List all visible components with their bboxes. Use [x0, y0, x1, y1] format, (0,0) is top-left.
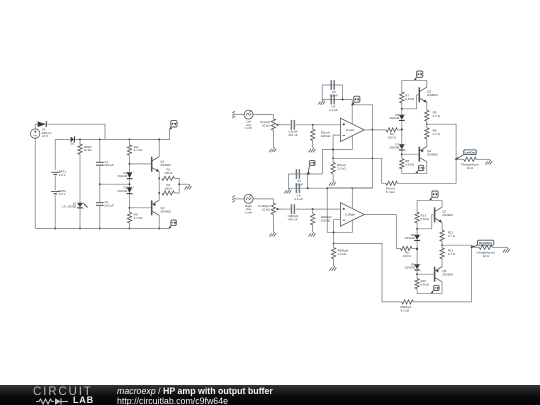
junction output node	[178, 183, 180, 185]
wire +v to V+ pin	[351, 100, 353, 125]
wire Q1 collector	[158, 139, 160, 156]
resistor R5 4.7	[425, 110, 429, 121]
label D6 1N4148	[389, 113, 399, 120]
ground Left source	[232, 111, 235, 118]
label R8 6.8k	[405, 159, 415, 166]
wire Right pot bottom	[272, 215, 274, 232]
svg-text:2N3904: 2N3904	[442, 213, 453, 217]
wire R2 right	[174, 184, 179, 193]
resistor R3 100	[386, 128, 397, 132]
svg-text:1 kHz: 1 kHz	[245, 126, 253, 130]
svg-text:IC1Left: IC1Left	[346, 128, 355, 132]
label D5 1N4148	[117, 186, 127, 193]
svg-text:2N3904: 2N3904	[427, 93, 438, 97]
wire left buffer top base dogleg	[402, 95, 420, 109]
diode D3	[37, 121, 48, 130]
svg-text:10 kΩ: 10 kΩ	[84, 148, 93, 152]
wire right buffer diode mid	[416, 241, 418, 264]
wire left buffer R top lead	[401, 80, 403, 92]
label C1 220uF	[104, 160, 114, 167]
svg-text:2: 2	[133, 172, 134, 174]
svg-text:1N4148: 1N4148	[405, 266, 415, 270]
label D8 1N4148	[405, 233, 415, 240]
wire BAT1 to BAT2	[54, 176, 56, 190]
label C4 2.2uF	[294, 193, 303, 200]
label R4Right 9.1k	[401, 305, 412, 312]
junction left output node	[426, 123, 428, 125]
wire R2Right bottom	[312, 225, 314, 232]
svg-text:RightOut: RightOut	[479, 241, 492, 245]
capacitor C4 2.2uF	[296, 183, 300, 193]
wire R5Left bottom	[332, 174, 334, 181]
potentiometer PotRight 10k	[271, 203, 275, 214]
wire C5C6 left node	[321, 85, 323, 100]
flag -v left buffer	[416, 165, 424, 173]
junction left buffer top base node	[401, 108, 403, 110]
flag RightOut	[472, 240, 494, 247]
junction left buffer drive node	[401, 128, 403, 130]
label C6 2.2uF	[329, 105, 338, 112]
wire Left pot bottom	[272, 130, 274, 147]
transistor Q2 2N3906	[152, 200, 160, 215]
svg-text:2: 2	[75, 136, 76, 138]
label PotRight 10k	[258, 204, 270, 211]
label C3 100nF	[295, 179, 304, 186]
wire D5 to R3minus	[129, 194, 131, 212]
wire rail to R3plus	[129, 139, 131, 145]
diode D8 1N4148	[414, 234, 421, 243]
wire supply rail	[55, 138, 70, 140]
wire R9 to bias column	[412, 247, 417, 249]
resistor R5Left 2.2k	[331, 162, 335, 173]
junction R2Left tap	[312, 124, 314, 126]
svg-text:1: 1	[405, 151, 406, 153]
wire C3C4 right node	[307, 174, 309, 188]
wire V- pin IC1Left	[322, 136, 352, 174]
resistor LHeadphone1 32	[479, 245, 492, 249]
wire rail to C1	[99, 139, 101, 161]
svg-text:1N4148: 1N4148	[389, 116, 399, 120]
wire Q2 base	[130, 207, 152, 209]
junction rail C1	[99, 138, 101, 140]
label D4 1N4148	[117, 171, 127, 178]
wire right buffer R6 to Q4 emitter	[441, 259, 443, 267]
label BAT1 3.6V	[59, 170, 67, 177]
wire Q1 base	[130, 163, 152, 165]
resistor R8 6.8k	[400, 159, 404, 169]
diode D6 1N4148	[399, 114, 406, 123]
junction R1 left	[158, 177, 160, 179]
wire R3minus to bottom rail	[129, 223, 131, 229]
resistor R10 6.8k	[415, 279, 419, 289]
wire IC1Left output	[364, 129, 386, 131]
transistor Q7 2N3904	[435, 207, 443, 222]
wire Right source left	[235, 198, 244, 200]
wire C3C4 left node	[288, 174, 290, 188]
diode D9 1N4148	[414, 264, 421, 273]
wire right buffer Q4 collector	[441, 282, 443, 294]
flag -v right buffer	[431, 285, 439, 293]
svg-text:2N3906: 2N3906	[427, 153, 438, 157]
label Q4 2N3906	[427, 149, 438, 157]
svg-text:IC1Right: IC1Right	[345, 213, 355, 217]
svg-text:1: 1	[83, 209, 84, 211]
flag +v left section	[170, 121, 177, 130]
wire battery column top	[54, 139, 56, 170]
svg-text:32 Ω: 32 Ω	[483, 254, 490, 258]
junction C4 right node	[307, 187, 309, 189]
wire Right wiper to cap	[279, 208, 290, 210]
label R6 4.7	[433, 128, 441, 135]
wire Left wiper to cap	[279, 124, 290, 126]
flag LeftOut	[456, 150, 476, 160]
junction Q2 base node	[129, 207, 131, 209]
wire -input IC1Right	[334, 220, 341, 244]
diode D4 1N4148	[127, 172, 134, 182]
wire right buffer bottom base	[417, 273, 435, 275]
resistor R4Left 5.1k	[386, 181, 398, 185]
wire LED to bottom rail	[79, 208, 81, 228]
wire left buffer output node link	[426, 121, 428, 128]
potentiometer PotRight 10k wiper	[276, 208, 280, 211]
ground R2Left	[309, 147, 316, 152]
wire R5Left top	[332, 158, 334, 162]
svg-text:LTL-307EE: LTL-307EE	[62, 205, 76, 209]
label LHeadphone1 32	[476, 250, 495, 257]
wire to virtual ground	[179, 183, 189, 185]
svg-text:1 kHz: 1 kHz	[245, 210, 253, 214]
label R3+ 4.7k	[134, 145, 144, 152]
svg-text:32 Ω: 32 Ω	[467, 166, 474, 170]
junction R5Left node	[332, 157, 334, 159]
ground headphone left	[485, 159, 492, 164]
svg-text:2N3904: 2N3904	[160, 163, 171, 167]
junction left drive node	[401, 128, 403, 130]
wire rail to RLED	[79, 139, 81, 144]
wire headphone left lead	[456, 158, 464, 160]
wire left buffer diode mid	[401, 121, 403, 144]
resistor R6 4.7	[425, 128, 429, 139]
wire right buffer top base dogleg	[417, 215, 435, 229]
junction IC1Right Vminus drop	[326, 187, 328, 189]
logo diode symbol	[55, 398, 63, 404]
resistor R12 4.7	[440, 230, 444, 241]
svg-text:2.2 µF: 2.2 µF	[329, 108, 338, 112]
label V1 WALL1 12V	[42, 128, 52, 139]
svg-text:2: 2	[421, 264, 422, 266]
svg-text:1: 1	[133, 180, 134, 182]
wire rail D2 to flag corner	[75, 130, 170, 140]
voltage source V1 WALL1 12V	[31, 129, 40, 138]
capacitor C6 2.2uF	[331, 95, 335, 105]
resistor R3- 4.7k	[127, 212, 131, 223]
wire R2Left top	[312, 125, 314, 130]
wire -input IC1Left	[333, 135, 340, 158]
junction R2Right tap	[312, 208, 314, 210]
label R2Left 100k	[321, 131, 331, 138]
ground R5Right	[329, 266, 336, 271]
resistor R3+ 4.7k	[127, 145, 131, 155]
label PotLeft 10k	[260, 120, 270, 127]
source Right sine 1kHz	[244, 194, 253, 203]
potentiometer PotLeft 10k wiper	[276, 124, 280, 127]
svg-text:470 nF: 470 nF	[288, 217, 298, 221]
wire R1 right	[174, 178, 179, 184]
ground C5C6	[318, 100, 325, 105]
wire right output	[442, 245, 472, 302]
svg-text:220 µF: 220 µF	[104, 203, 114, 207]
label R5 4.7	[433, 110, 441, 117]
label R5Left 2.2k	[337, 163, 347, 170]
wire emitter column	[158, 178, 160, 193]
capacitor C2Left 470nF	[291, 120, 295, 130]
flag +v right buffer	[430, 191, 439, 200]
svg-text:D2: D2	[71, 142, 75, 146]
flag -v decoupling	[308, 160, 315, 174]
LED D1 LTL-307EE	[77, 202, 84, 210]
junction left buffer bottom base node	[401, 153, 403, 155]
junction right buffer top base node	[416, 228, 418, 230]
label Q2 2N3906	[160, 206, 171, 214]
wire +v rail right	[327, 105, 372, 188]
ground Right source	[232, 196, 235, 203]
wire Q1 emitter to R1 node	[158, 172, 160, 179]
label D7 1N4148	[389, 142, 399, 149]
svg-text:2N3906: 2N3906	[442, 273, 453, 277]
wire feedback row left	[333, 157, 372, 159]
wire cap mid to diode mid	[100, 183, 130, 185]
label R5Right 2.2k	[338, 248, 349, 255]
wire right feedback	[334, 244, 402, 302]
wire right buffer Q emitter	[441, 222, 443, 230]
svg-text:2.2 kΩ: 2.2 kΩ	[338, 252, 348, 256]
wire R2Right top	[312, 209, 314, 214]
wire V1 bottom	[34, 138, 36, 228]
wire right buffer top rail	[417, 199, 442, 201]
label R3 100	[388, 132, 397, 139]
label Q1 2N3904	[160, 159, 171, 167]
svg-text:4.7 kΩ: 4.7 kΩ	[134, 148, 144, 152]
svg-text:1N4148: 1N4148	[117, 174, 127, 178]
resistor R13 6.8k	[415, 212, 419, 223]
wire R3plus to D4	[129, 155, 131, 172]
svg-text:1: 1	[421, 241, 422, 243]
wire R5Right top	[333, 244, 335, 248]
junction Q2 collector rail	[158, 228, 160, 230]
ground R5Left	[329, 180, 336, 185]
junction battery bottom rail	[54, 228, 56, 230]
label R9 100	[403, 251, 412, 258]
wire R4Right to output column	[413, 301, 471, 303]
flag +v left buffer	[414, 71, 423, 80]
flag +v opamp	[352, 96, 360, 105]
svg-text:1N4148: 1N4148	[405, 236, 415, 240]
junction right buffer bottom base node	[416, 273, 418, 275]
svg-text:1: 1	[405, 121, 406, 123]
svg-text:6.8 kΩ: 6.8 kΩ	[405, 97, 415, 101]
label R2 100	[164, 183, 173, 191]
wire left buffer Q emitter	[426, 102, 428, 110]
svg-text:100 Ω: 100 Ω	[164, 171, 173, 175]
diode D5 1N4148	[127, 187, 134, 197]
junction C6 right	[342, 99, 344, 101]
label R7 6.8k	[405, 94, 415, 101]
wire IC1Right V- drop	[327, 188, 352, 232]
wire C4 bottom branch	[289, 187, 373, 189]
virtual ground	[185, 184, 192, 189]
junction R3minus bottom rail	[129, 228, 131, 230]
wire left buffer D7 to R8	[401, 151, 403, 159]
wire R5Right bottom	[333, 259, 335, 266]
wire RLED to LED	[79, 154, 81, 202]
wire R2Left bottom	[312, 141, 314, 148]
svg-text:100 kΩ: 100 kΩ	[321, 218, 331, 222]
label C2Right 470nF	[287, 214, 298, 221]
label D9 1N4148	[405, 262, 415, 269]
junction crossing output	[372, 129, 374, 131]
svg-text:10 kΩ: 10 kΩ	[262, 208, 271, 212]
footer bar	[0, 385, 540, 405]
resistor R7 6.8k	[400, 92, 404, 103]
wire bottom rail	[35, 228, 169, 230]
resistor R2 100	[162, 191, 174, 195]
label Q3 2N3904	[427, 90, 438, 98]
label BAT2 3.6V	[59, 189, 67, 196]
wire Left source to pot	[253, 115, 273, 119]
battery BAT2	[51, 192, 59, 194]
svg-text:2: 2	[405, 114, 406, 116]
resistor Rheadphone 32	[464, 157, 477, 161]
junction -input Vminus cross right	[333, 231, 335, 233]
svg-text:1: 1	[133, 195, 134, 197]
svg-text:220 µF: 220 µF	[104, 163, 114, 167]
wire C1 to link row	[99, 166, 101, 202]
junction -input Vminus cross	[332, 149, 334, 151]
wire C6 bottom branch	[322, 99, 352, 101]
label R3- 4.7k	[134, 212, 144, 219]
transistor Q8 2N3906	[435, 267, 443, 282]
resistor R9 100	[401, 246, 412, 250]
label R12 4.7	[448, 230, 456, 237]
junction feedback node	[372, 157, 374, 159]
label Right sine 1kHz	[245, 204, 253, 214]
wire C3 top branch	[289, 173, 323, 175]
junction right headphone tap	[471, 246, 473, 248]
diode D2	[70, 136, 76, 145]
svg-text:1: 1	[37, 128, 38, 130]
label C2Left 470nF	[288, 130, 298, 137]
label Q7 2N3904	[442, 210, 453, 218]
wire left buffer R6 to Q4 emitter	[426, 139, 428, 147]
svg-text:3.6 V: 3.6 V	[59, 173, 66, 177]
label R4Left 5.1k	[386, 187, 396, 194]
label D1 LTL-307EE	[62, 201, 77, 208]
resistor R5Right 2.2k	[331, 248, 335, 259]
junction right output node	[441, 244, 443, 246]
wire left buffer Q4 collector	[426, 162, 428, 174]
label RLED 10k	[84, 145, 93, 152]
capacitor C1 220uF	[96, 162, 104, 166]
junction rail R3plus	[129, 138, 131, 140]
junction IC1Right V+ stub	[352, 187, 354, 189]
wire feedback drop	[373, 158, 386, 183]
svg-text:2: 2	[133, 187, 134, 189]
junction R5Right node	[333, 243, 335, 245]
label R1 100	[164, 167, 173, 175]
svg-text:5.1 kΩ: 5.1 kΩ	[386, 190, 396, 194]
wire right buffer output node link	[441, 241, 443, 248]
flag -v left section	[169, 220, 176, 229]
resistor R2Left 100k	[311, 129, 315, 140]
label Left sine 1kHz	[245, 120, 253, 130]
svg-text:2: 2	[405, 144, 406, 146]
wire right headphone to ground	[492, 246, 507, 248]
wire headphone to ground	[476, 158, 489, 160]
wire left buffer R8 to bottom rail	[402, 169, 427, 174]
wire top rail right	[47, 124, 105, 139]
wire left buffer top rail	[402, 79, 427, 81]
junction C1 C2 midpoint	[99, 183, 101, 185]
resistor R1 100	[162, 176, 174, 180]
svg-text:1N4148: 1N4148	[389, 146, 399, 150]
wire C2 to bottom rail	[99, 206, 101, 229]
transistor Q1 2N3904	[152, 157, 160, 172]
resistor R4Right 9.1k	[402, 300, 414, 304]
wire IC1Right output	[364, 215, 400, 249]
wire Right source to pot	[253, 199, 273, 203]
label Q8 2N3906	[442, 269, 453, 277]
wire right buffer R8 to bottom rail	[417, 289, 442, 294]
svg-text:2N3906: 2N3906	[160, 209, 171, 213]
junction rail RLED	[79, 138, 81, 140]
svg-text:10 kΩ: 10 kΩ	[262, 123, 271, 127]
junction Q1 base node	[129, 163, 131, 165]
wire Q2 collector down	[158, 215, 160, 228]
logo resistor symbol	[36, 399, 54, 404]
wire Left source left	[235, 114, 244, 116]
svg-text:4.7 kΩ: 4.7 kΩ	[134, 216, 144, 220]
wire left buffer bottom base	[402, 153, 420, 155]
svg-text:4.7 Ω: 4.7 Ω	[448, 234, 456, 238]
junction left headphone tap	[455, 158, 457, 160]
wire right buffer Q collector	[441, 200, 443, 207]
svg-text:2.2 kΩ: 2.2 kΩ	[337, 167, 347, 171]
wire D4 to D5	[129, 179, 131, 187]
capacitor C2Right 470nF	[291, 204, 295, 214]
svg-text:100 Ω: 100 Ω	[403, 254, 412, 258]
label D2	[71, 142, 75, 146]
junction +v node	[351, 104, 353, 106]
junction Q1 collector rail	[158, 138, 160, 140]
svg-text:6.8 kΩ: 6.8 kΩ	[421, 217, 431, 221]
junction R2 left	[158, 192, 160, 194]
junction C3 right node	[307, 173, 309, 175]
svg-text:3.6 V: 3.6 V	[59, 192, 66, 196]
svg-text:6.8 kΩ: 6.8 kΩ	[405, 162, 415, 166]
svg-text:2: 2	[421, 234, 422, 236]
junction right buffer drive node	[416, 248, 418, 250]
resistor R11 4.7	[440, 248, 444, 259]
potentiometer PotLeft 10k	[271, 119, 275, 130]
svg-text:4.7 Ω: 4.7 Ω	[448, 252, 456, 256]
capacitor C5 100nF	[331, 80, 335, 90]
label R10 6.8k	[421, 279, 431, 286]
battery BAT1	[51, 172, 59, 174]
svg-text:12 V: 12 V	[42, 134, 48, 138]
resistor R2Right 100k	[311, 214, 315, 225]
wire left buffer R to D6	[401, 103, 403, 115]
wire V1 top to top rail	[35, 124, 37, 129]
